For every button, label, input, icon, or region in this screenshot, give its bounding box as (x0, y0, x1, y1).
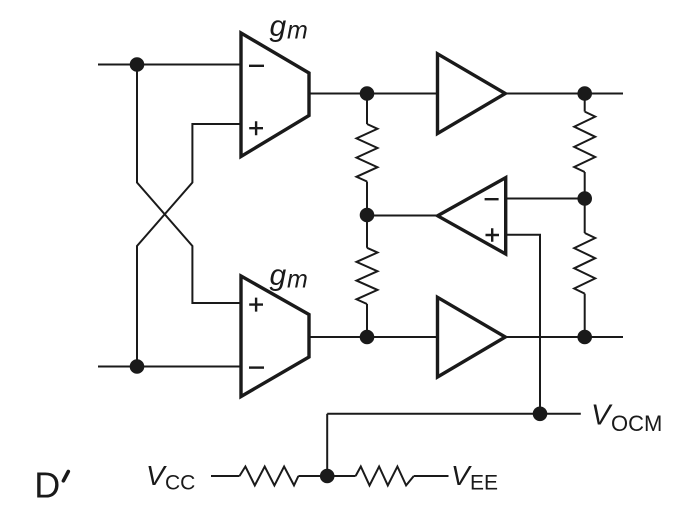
label D prime (34, 465, 68, 506)
node top buffer output (577, 86, 592, 101)
wire top gm output (309, 93, 438, 95)
node top gm output (360, 86, 375, 101)
node bottom buffer output (577, 330, 592, 345)
wire bottom gm output (309, 336, 438, 338)
wire Vocm down to supply divider node (326, 414, 328, 476)
wire left column bottom stub (366, 304, 368, 337)
wire top input (98, 64, 241, 66)
wire cross-couple from top node to bottom amp + input (137, 65, 241, 304)
svg-text:V: V (591, 400, 613, 432)
svg-text:OCM: OCM (611, 411, 662, 436)
svg-text:D: D (34, 465, 60, 506)
minus sign feedback amp (485, 198, 499, 200)
svg-text:CC: CC (165, 472, 195, 495)
node bottom gm output (360, 330, 375, 345)
wire top buffer output (505, 93, 623, 95)
wire feedback amp plus input to Vocm (506, 235, 540, 414)
plus sign feedback amp (486, 228, 500, 241)
wire bottom input (98, 366, 241, 368)
wire between Vcc resistor and node (298, 475, 355, 477)
label gm top (270, 10, 308, 45)
svg-text:V: V (451, 460, 472, 491)
resistor left lower (357, 248, 378, 304)
label VOCM (591, 400, 662, 437)
minus sign top gm amp (249, 65, 264, 67)
label VEE (451, 460, 498, 495)
node supply divider (320, 469, 335, 484)
node Vocm (533, 407, 548, 422)
svg-text:m: m (287, 17, 308, 45)
label gm bottom (270, 259, 308, 294)
wire bottom buffer output (505, 336, 623, 338)
wire right column upper stub (584, 94, 586, 112)
resistor left upper (357, 124, 378, 182)
label VCC (146, 460, 195, 495)
svg-text:m: m (287, 266, 308, 294)
feedback op-amp (points left) (438, 178, 506, 254)
wire Vocm horizontal (327, 413, 581, 415)
svg-text:g: g (270, 259, 287, 292)
svg-text:V: V (146, 460, 167, 491)
node bottom input (130, 359, 145, 374)
wire Vee lead (414, 475, 449, 477)
resistor right upper (574, 112, 595, 172)
wire cross-couple from top amp + input to bottom node (137, 124, 241, 367)
wire middle node to feedback amp output (367, 215, 438, 217)
transconductance amp gm bottom (241, 276, 309, 397)
wire feedback amp minus input (506, 198, 585, 200)
plus sign bottom gm amp (249, 298, 263, 312)
buffer amp top (438, 54, 506, 134)
wire left column mid stub (366, 182, 368, 248)
wire right column bottom stub (584, 294, 586, 337)
wire right column mid stub (584, 172, 586, 233)
resistor Vee (356, 467, 414, 486)
wire left column upper stub (366, 94, 368, 125)
node left divider middle (360, 208, 375, 223)
resistor Vcc (240, 467, 299, 486)
svg-text:EE: EE (470, 472, 498, 495)
buffer amp bottom (438, 297, 506, 377)
plus sign top gm amp (249, 121, 263, 135)
minus sign bottom gm amp (249, 366, 264, 368)
resistor right lower (574, 233, 595, 294)
wire Vcc lead (211, 475, 240, 477)
transconductance amp gm top (241, 33, 309, 157)
node top input (130, 57, 145, 72)
svg-text:g: g (270, 10, 287, 43)
node right divider middle (577, 191, 592, 206)
